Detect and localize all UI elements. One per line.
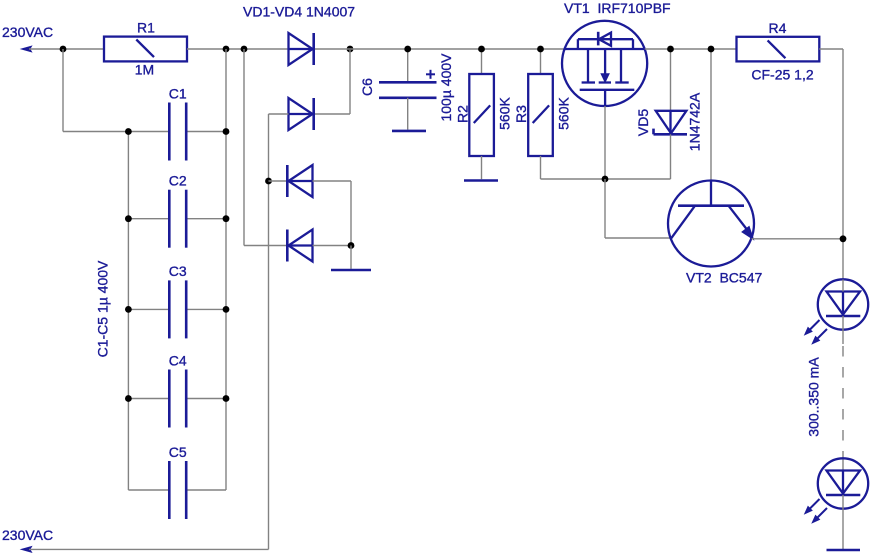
wire VD5 top lead [670, 49, 672, 111]
capacitor C2 [128, 218, 169, 220]
transistor VT1 body circle [562, 21, 647, 106]
wire VT2 emitter to right rail [752, 238, 844, 240]
resistor R4 [737, 37, 820, 62]
wire R4 to right rail [819, 48, 843, 50]
wire gate node to VT2 collector [604, 179, 606, 238]
node R2 top [478, 46, 485, 53]
resistor R2 [469, 74, 494, 156]
wire VD1 cathode to VT1 [315, 48, 565, 50]
ground bar DC- [331, 269, 371, 272]
svg-text:230VAC: 230VAC [2, 527, 53, 543]
node AC2 VD3 cathode [265, 178, 272, 185]
LED HL2 triangle [827, 471, 861, 494]
wire LED2 bottom lead [842, 495, 844, 549]
wire R2 top lead [481, 49, 483, 74]
node cap C3 left [125, 306, 132, 313]
node junction top-left [60, 46, 67, 53]
svg-text:R1: R1 [137, 20, 155, 36]
wire R3 bottom to gate line [540, 156, 542, 179]
wire input drop to cap bank [62, 49, 64, 132]
transistor VT1 body diode [597, 32, 600, 46]
svg-text:VT1 IRF710PBF: VT1 IRF710PBF [564, 0, 671, 16]
svg-text:230VAC: 230VAC [2, 24, 53, 40]
node cap C4 left [125, 395, 132, 402]
svg-text:C5: C5 [169, 444, 187, 460]
svg-text:C2: C2 [169, 173, 187, 189]
ground bar R2 [464, 179, 498, 182]
svg-text:C4: C4 [169, 352, 187, 368]
svg-text:R2: R2 [455, 105, 471, 123]
LED HL1 triangle [827, 292, 861, 315]
node VD4 rail top [241, 46, 248, 53]
wire right rail down [842, 49, 844, 280]
wire R3 top lead [540, 49, 542, 74]
terminal bar LED string bottom [827, 549, 861, 552]
resistor R1 [104, 37, 187, 62]
wire VD2 anode to AC2 rail [269, 113, 289, 115]
svg-text:1M: 1M [135, 62, 154, 78]
wire bottom AC line [29, 548, 269, 550]
wire C6 top lead [407, 49, 409, 82]
node cap C1 right [223, 128, 230, 135]
svg-text:VD5: VD5 [635, 109, 651, 136]
wire R1 to diode bridge [187, 48, 289, 50]
wire to LED2 [842, 452, 844, 471]
diode VD2 [289, 98, 313, 130]
LED HL2 emission arrows [808, 499, 820, 511]
node emitter junction [840, 235, 847, 242]
resistor R3 [528, 74, 553, 156]
svg-text:VD1-VD4 1N4007: VD1-VD4 1N4007 [243, 4, 355, 20]
transistor VT2 body circle [668, 181, 754, 267]
zener diode VD5 1N4742A [656, 111, 687, 134]
node cap C1 left [125, 128, 132, 135]
LED HL2 cathode bar [826, 494, 860, 497]
svg-text:R4: R4 [769, 20, 787, 36]
node R3 top [537, 46, 544, 53]
transistor VT1 internals [565, 39, 645, 106]
diode VD1 [289, 33, 313, 65]
wire VT2 base lead from top [710, 49, 712, 181]
node 230VAC bottom input arrow [22, 547, 32, 553]
LED HL1 circle [818, 279, 868, 329]
wire VD3 anode down [313, 180, 352, 182]
LED HL2 circle [818, 458, 868, 508]
label C6 plus polarity [426, 73, 435, 75]
node cap C2 right [223, 215, 230, 222]
node DC- junction [348, 242, 355, 249]
capacitor C1 [128, 131, 169, 133]
LED HL1 cathode bar [826, 315, 860, 318]
svg-text:560K: 560K [497, 96, 513, 129]
wire VT1 to R4 [645, 48, 737, 50]
transistor VT2 emitter arrow [742, 226, 754, 239]
node gate junction [602, 176, 609, 183]
transistor VT1 substrate arrow [601, 74, 609, 82]
wire left capacitor rail [127, 132, 129, 491]
node VD1 cathode junction [347, 46, 354, 53]
node cap C3 right [223, 306, 230, 313]
node cap C4 right [223, 395, 230, 402]
wire top input to R1 [29, 48, 104, 50]
wire VT1 gate lead down [604, 106, 606, 179]
svg-text:C1-C5 1µ 400V: C1-C5 1µ 400V [95, 260, 111, 357]
svg-text:CF-25 1,2: CF-25 1,2 [751, 66, 813, 82]
wire VD5 cathode to gate line [670, 134, 672, 179]
wire LED1 internal [842, 280, 844, 292]
svg-text:VT2 BC547: VT2 BC547 [686, 270, 762, 286]
svg-text:C6: C6 [359, 78, 375, 96]
svg-text:R3: R3 [513, 105, 529, 123]
wire VD2 cathode up to DC+ [315, 113, 350, 115]
capacitor C5 [128, 489, 169, 491]
svg-text:C1: C1 [169, 85, 187, 101]
node cap rail top [223, 46, 230, 53]
wire right capacitor rail [225, 49, 227, 490]
capacitor C4 [128, 398, 169, 400]
svg-text:1N4742A: 1N4742A [687, 92, 703, 151]
LED HL1 emission arrows [808, 320, 820, 332]
capacitor C6 [379, 81, 437, 84]
ground bar C6 [392, 130, 426, 133]
diode VD4 [289, 230, 313, 262]
node VD5 top [667, 46, 674, 53]
node VT2 base top [708, 46, 715, 53]
wire C6 bottom lead [407, 98, 409, 130]
wire VD4 cathode rail from top [243, 49, 245, 246]
svg-text:300..350 mA: 300..350 mA [806, 357, 822, 437]
node C6 top [404, 46, 411, 53]
node 230VAC top input arrow [22, 46, 32, 52]
wire VD3 cathode lead [269, 180, 287, 182]
svg-text:C3: C3 [169, 263, 187, 279]
node cap C2 left [125, 215, 132, 222]
transistor VT2 internals [671, 181, 749, 239]
capacitor C3 [128, 308, 169, 310]
svg-text:100µ 400V: 100µ 400V [438, 53, 454, 122]
wire R2 bottom lead [481, 156, 483, 179]
wire VD4 anode lead [313, 245, 352, 247]
svg-text:560K: 560K [556, 96, 572, 129]
wire DC- to ground [350, 246, 352, 269]
diode VD3 [289, 165, 313, 197]
wire dashed LED string continuation [842, 346, 844, 452]
